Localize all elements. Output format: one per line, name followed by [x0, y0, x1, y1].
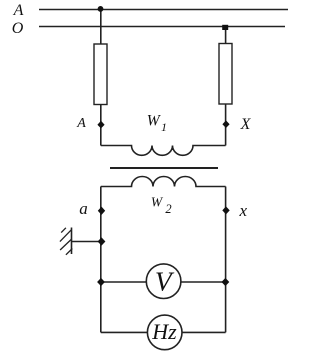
svg-text:O: O [12, 20, 24, 37]
svg-text:x: x [239, 201, 248, 220]
svg-text:A: A [76, 116, 86, 131]
svg-text:1: 1 [161, 120, 167, 134]
svg-text:X: X [240, 116, 252, 133]
svg-text:2: 2 [165, 202, 171, 216]
svg-text:W: W [147, 113, 162, 130]
svg-text:Hz: Hz [151, 319, 177, 344]
svg-text:a: a [79, 199, 88, 218]
svg-text:A: A [13, 2, 24, 19]
svg-text:W: W [151, 194, 164, 209]
